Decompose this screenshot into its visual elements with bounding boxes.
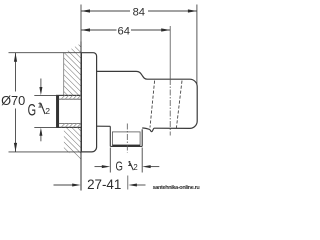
G1/2 lower arrows	[102, 165, 111, 168]
holder arm outline	[97, 71, 197, 131]
27-41 arrows	[72, 184, 81, 187]
thread box	[112, 132, 140, 145]
wall face line	[80, 42, 82, 191]
svg-text:Ø70: Ø70	[1, 93, 25, 108]
outlet pipe centerline	[126, 124, 128, 153]
wall inlet pipe G1/2	[57, 95, 82, 127]
wall back boundary line (upper)	[63, 52, 65, 95]
dia 70 up / down	[14, 53, 17, 62]
84 dim line	[81, 10, 130, 12]
G1/2 lower ext lines	[109, 148, 111, 173]
64 dim line	[81, 29, 117, 31]
holder cone hidden lines	[150, 81, 182, 128]
svg-text:G: G	[28, 100, 36, 119]
svg-text:27-41: 27-41	[87, 177, 121, 192]
arrowheads	[14, 9, 197, 186]
84 left / right	[81, 9, 90, 12]
svg-text:2: 2	[45, 106, 50, 116]
holder axis / 64 extension line	[169, 26, 171, 79]
svg-text:64: 64	[117, 25, 129, 37]
flange escutcheon (side view plate)	[81, 53, 96, 152]
svg-text:G: G	[116, 160, 123, 174]
27-41 arrow tails	[54, 184, 75, 186]
svg-text:84: 84	[133, 6, 145, 18]
G1/2 upper: ext + arrows shafts	[34, 94, 56, 96]
thread ticks top band	[61, 95, 81, 127]
svg-text:2: 2	[133, 163, 137, 172]
diameter 70 dim line	[15, 53, 17, 92]
G1/2 upper arrows	[39, 87, 42, 95]
svg-text:santehnika-online.ru: santehnika-online.ru	[153, 185, 200, 191]
G1/2 lower arrow tails	[95, 166, 105, 168]
arm underside left of outlet	[97, 125, 110, 127]
diameter 70 ext lines	[9, 52, 82, 54]
wall hatch region	[64, 43, 81, 95]
64 left / right	[81, 28, 90, 31]
extension lines	[196, 5, 198, 86]
outlet pipe	[110, 126, 142, 146]
